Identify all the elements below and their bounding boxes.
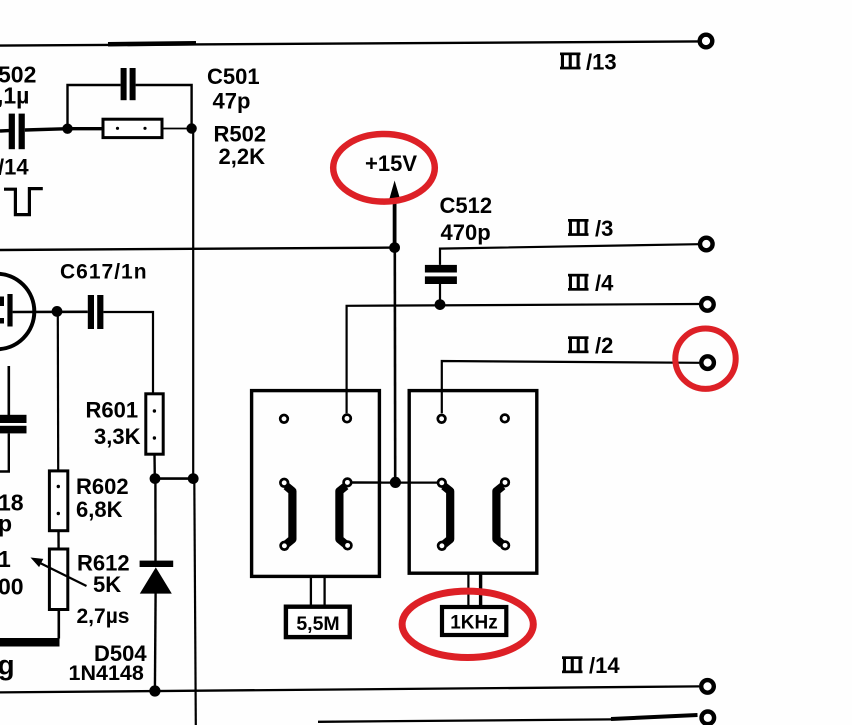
wire III/3 — [440, 244, 698, 265]
svg-text:g: g — [0, 650, 15, 681]
label III/3 — [568, 216, 613, 241]
pin K1-2 — [343, 415, 351, 423]
pulse waveform symbol — [4, 189, 43, 215]
contact bar K1 left — [286, 486, 292, 544]
svg-text:00: 00 — [0, 574, 24, 600]
pin K2-4 — [501, 479, 509, 487]
svg-text:1KHz: 1KHz — [450, 613, 498, 634]
red ellipse around +15V — [333, 134, 435, 202]
terminal III/4 — [701, 298, 714, 311]
svg-text:,1µ: ,1µ — [0, 83, 29, 109]
wire III/14 — [0, 686, 699, 692]
label III/2 — [568, 333, 613, 358]
label III/13 — [560, 49, 617, 74]
svg-text:C617/1n: C617/1n — [60, 260, 148, 283]
svg-text:6,8K: 6,8K — [76, 497, 123, 522]
label III/4 — [568, 271, 614, 296]
svg-text:+15V: +15V — [365, 151, 417, 176]
svg-text:/13: /13 — [586, 49, 617, 74]
pin K2-3 — [438, 479, 446, 487]
svg-text:R601: R601 — [86, 397, 139, 422]
svg-text:2,2K: 2,2K — [219, 144, 266, 169]
resistor R612 (trimmer) — [0, 546, 130, 642]
resistor R601 — [86, 394, 164, 479]
relay box K2 — [409, 391, 537, 607]
svg-text:/3: /3 — [595, 216, 613, 241]
node junction G (+15V to relay row) — [390, 477, 401, 488]
pin K2-5 — [438, 542, 446, 550]
capacitor C617 — [60, 260, 153, 394]
wire horizontal mid — [0, 248, 395, 250]
node junction F — [188, 473, 199, 484]
label III/14 — [562, 653, 620, 678]
wire transistor to C617 — [13, 310, 88, 313]
node junction E (R601 bottom) — [150, 473, 161, 484]
node junction H (C512 bottom on III/4 wire) — [435, 299, 446, 310]
wire +15V rail down — [393, 248, 396, 482]
pin K1-3 — [280, 479, 288, 487]
capacitor C502 (left edge) — [0, 62, 64, 150]
svg-text:/14: /14 — [589, 653, 620, 678]
pin K1-5 — [281, 542, 289, 550]
wire node E to node F — [155, 477, 193, 480]
svg-text:3,3K: 3,3K — [94, 424, 141, 449]
pin K1-6 — [344, 542, 352, 550]
node junction I (diode bottom on III/14 wire) — [149, 685, 160, 696]
stubs to 1KHz label — [467, 573, 469, 607]
terminal III/2 — [701, 356, 714, 369]
contact bar K1 right — [339, 486, 345, 544]
wire bottom-most — [318, 715, 698, 722]
resistor R502 — [68, 119, 267, 169]
wire from node B down — [192, 129, 194, 479]
stubs to 5,5M label — [310, 578, 312, 607]
red circle around terminal III/2 — [675, 329, 735, 389]
svg-text:C512: C512 — [440, 193, 493, 218]
terminal III/14 — [701, 680, 714, 693]
label box 1KHz — [442, 607, 506, 635]
svg-text:47p: 47p — [213, 89, 251, 114]
svg-text:1: 1 — [0, 546, 11, 572]
wire relay mid pins row — [351, 481, 438, 484]
+15V supply arrow — [365, 151, 417, 248]
svg-text:5K: 5K — [93, 572, 121, 597]
transistor (left edge, cut) — [0, 274, 34, 350]
wire III/2 — [442, 361, 700, 413]
svg-text:R502: R502 — [214, 122, 267, 147]
svg-text:1N4148: 1N4148 — [69, 661, 144, 685]
svg-text:C501: C501 — [207, 64, 260, 89]
red ellipse around 1KHz — [402, 591, 533, 657]
node junction D (base node) — [52, 306, 63, 317]
node junction C (+15V rail / mid wire) — [389, 242, 400, 253]
pin K1-1 — [280, 415, 288, 423]
relay box K1 — [252, 391, 380, 607]
wire III/13 top — [0, 41, 698, 45]
pin K2-6 — [501, 542, 509, 550]
svg-text:/2: /2 — [595, 333, 613, 358]
node junction B (R502 right) — [186, 123, 196, 133]
terminal III/13 — [700, 35, 713, 48]
pin K2-2 — [501, 415, 509, 423]
svg-text:5,5M: 5,5M — [296, 613, 339, 635]
svg-text:/4: /4 — [595, 271, 614, 296]
capacitor C618 (left edge, cut) — [0, 366, 27, 537]
node junction A (C502/R502/C501) — [62, 124, 72, 134]
pin K2-1 — [438, 415, 446, 423]
pin K1-4 — [344, 479, 352, 487]
terminal III/3 — [700, 238, 713, 251]
resistor R602 — [49, 471, 128, 549]
capacitor C512 — [425, 193, 492, 305]
label box 5,5M — [286, 607, 350, 637]
svg-text:R602: R602 — [76, 474, 129, 499]
capacitor C501 — [68, 64, 260, 129]
svg-text:/14: /14 — [0, 155, 29, 180]
wire III/4 — [347, 304, 700, 413]
contact bar K2 left — [444, 486, 450, 544]
diode D504 — [69, 479, 174, 691]
wire node F down to bottom edge — [194, 479, 196, 725]
svg-text:470p: 470p — [441, 220, 491, 245]
wire node D down to R602 — [57, 311, 60, 471]
contact bar K2 right — [496, 486, 502, 544]
svg-text:2,7µs: 2,7µs — [77, 605, 130, 628]
terminal bottom (cut) — [702, 712, 715, 725]
svg-text:p: p — [0, 511, 12, 537]
